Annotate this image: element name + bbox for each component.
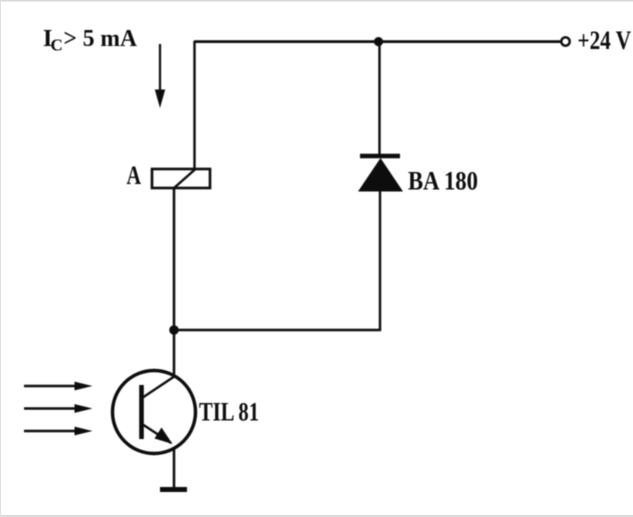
- label A (relay coil): [127, 161, 142, 190]
- label +24 V: [578, 26, 632, 55]
- collector lead: [142, 376, 175, 398]
- svg-text:+24 V: +24 V: [578, 26, 632, 55]
- phototransistor TIL 81: [113, 371, 196, 454]
- ground: [160, 487, 187, 492]
- label TIL 81: [199, 398, 259, 427]
- label Ic > 5 mA: [43, 26, 138, 55]
- wire: relay coil to collector junction: [173, 188, 176, 331]
- wire: diode cathode to top rail: [378, 42, 380, 156]
- base bar: [139, 385, 144, 439]
- terminal +24 V (open circle): [561, 37, 569, 45]
- wire: top rail from corner to +24V terminal: [194, 40, 561, 43]
- wire: diode anode to horizontal wire: [379, 191, 381, 331]
- top edge scan artifact: [0, 0, 633, 2]
- relay coil A (box with diagonal): [152, 169, 210, 188]
- light arrow 3: [24, 427, 93, 436]
- envelope circle: [113, 371, 196, 454]
- light arrow 1: [24, 382, 93, 391]
- svg-text:C: C: [51, 36, 63, 55]
- node: junction dot at collector: [169, 325, 179, 335]
- wire: horizontal from collector junction to diode branch: [174, 329, 381, 331]
- wire: emitter to ground: [173, 449, 176, 488]
- emitter lead: [142, 424, 171, 443]
- svg-text:A: A: [127, 161, 142, 190]
- node: junction dot on top rail: [374, 37, 383, 46]
- diode BA 180 (pointing up): [358, 156, 403, 192]
- svg-text:BA 180: BA 180: [408, 167, 478, 196]
- svg-text:TIL 81: TIL 81: [199, 398, 259, 427]
- left edge scan artifact: [0, 0, 1, 517]
- svg-text:> 5 mA: > 5 mA: [64, 26, 138, 52]
- light arrow 2: [24, 404, 93, 413]
- current arrow Ic (downward): [155, 44, 165, 108]
- emitter arrowhead: [155, 428, 173, 445]
- wire: vertical drop from top rail to relay coil: [193, 41, 195, 170]
- bottom edge scan artifact: [0, 515, 633, 517]
- wire: junction down to phototransistor collector: [173, 330, 176, 378]
- label BA 180: [408, 167, 478, 196]
